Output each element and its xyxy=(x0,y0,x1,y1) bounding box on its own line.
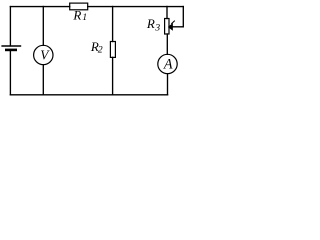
ammeter PA circle xyxy=(158,54,177,73)
svg-text:A: A xyxy=(163,57,173,73)
wire voltmeter branch upper xyxy=(42,7,44,46)
rheostat R3 body xyxy=(165,19,169,35)
rheostat R3 wiper diagonal tick xyxy=(172,21,175,24)
wire top left segment xyxy=(10,6,69,8)
wire bottom xyxy=(10,94,167,96)
svg-text:1: 1 xyxy=(82,12,87,23)
svg-text:2: 2 xyxy=(98,45,103,56)
resistor R1 body xyxy=(70,3,88,10)
wire left vertical upper xyxy=(9,7,11,46)
svg-text:R: R xyxy=(72,7,81,22)
rheostat R3 wiper arrowhead xyxy=(168,24,172,30)
wire R3 to ammeter xyxy=(166,34,168,54)
wire top right segment xyxy=(88,6,184,8)
wire right loop vertical xyxy=(172,7,183,27)
wire voltmeter branch lower xyxy=(42,65,44,95)
wire left vertical lower xyxy=(9,51,11,95)
battery GB: thin long plate xyxy=(2,45,20,47)
battery GB: thick short plate xyxy=(5,49,17,52)
resistor R2 body xyxy=(110,42,115,58)
wire R2 branch lower xyxy=(112,57,114,94)
wire R3 branch upper xyxy=(166,7,168,19)
svg-text:R: R xyxy=(146,16,155,31)
voltmeter PV circle xyxy=(34,45,53,64)
wire R2 branch upper xyxy=(112,7,114,42)
wire ammeter to bottom xyxy=(167,74,169,95)
svg-text:3: 3 xyxy=(154,22,160,33)
